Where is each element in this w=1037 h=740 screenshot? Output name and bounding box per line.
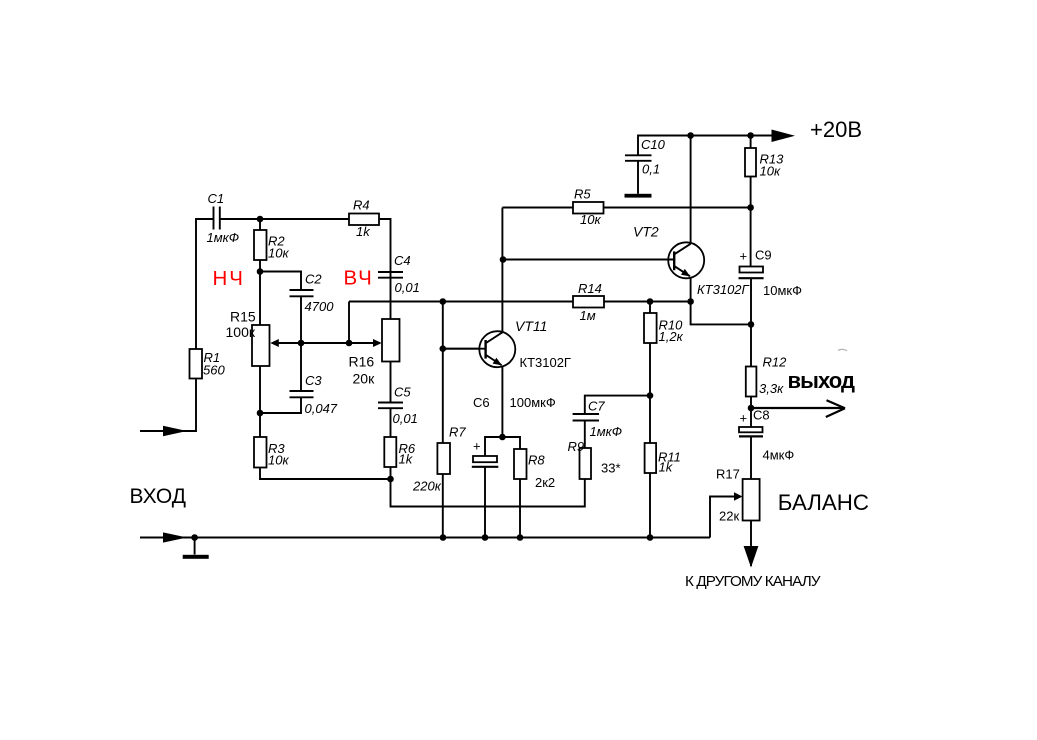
svg-text:20к: 20к: [353, 371, 376, 387]
svg-text:1мкФ: 1мкФ: [590, 424, 623, 439]
svg-text:1м: 1м: [580, 308, 596, 323]
svg-text:1k: 1k: [356, 224, 371, 239]
svg-text:НЧ: НЧ: [213, 267, 245, 290]
svg-text:ВХОД: ВХОД: [130, 485, 187, 508]
svg-text:C6: C6: [473, 395, 490, 410]
svg-text:КТ3102Г: КТ3102Г: [697, 282, 750, 297]
svg-text:R5: R5: [574, 187, 591, 202]
svg-text:33*: 33*: [601, 461, 621, 476]
svg-text:C5: C5: [394, 385, 411, 400]
svg-text:выход: выход: [788, 368, 856, 393]
svg-text:100мкФ: 100мкФ: [510, 395, 556, 410]
svg-text:+20В: +20В: [810, 117, 862, 142]
svg-text:+: +: [740, 249, 748, 264]
svg-text:+: +: [473, 439, 481, 454]
svg-text:R12: R12: [763, 355, 788, 370]
svg-text:4700: 4700: [305, 299, 335, 314]
svg-text:C2: C2: [305, 271, 322, 286]
svg-text:R8: R8: [528, 453, 545, 468]
svg-text:+: +: [740, 411, 748, 426]
svg-text:10к: 10к: [760, 164, 781, 179]
svg-text:0,047: 0,047: [305, 401, 338, 416]
svg-text:220к: 220к: [412, 479, 442, 494]
svg-text:C7: C7: [588, 399, 605, 414]
svg-text:C9: C9: [755, 248, 772, 263]
svg-text:560: 560: [203, 363, 225, 378]
svg-text:C10: C10: [641, 137, 666, 152]
svg-text:БАЛАНС: БАЛАНС: [778, 490, 869, 515]
svg-text:R14: R14: [578, 281, 602, 296]
svg-text:VT2: VT2: [633, 224, 659, 240]
svg-text:100к: 100к: [226, 324, 256, 340]
svg-text:К ДРУГОМУ КАНАЛУ: К ДРУГОМУ КАНАЛУ: [685, 573, 821, 590]
svg-text:10мкФ: 10мкФ: [763, 283, 802, 298]
svg-text:3,3к: 3,3к: [759, 381, 784, 396]
svg-text:R16: R16: [349, 354, 375, 370]
svg-text:1k: 1k: [659, 460, 674, 475]
svg-text:10к: 10к: [268, 246, 289, 261]
svg-text:2к2: 2к2: [535, 475, 555, 490]
svg-text:C4: C4: [394, 253, 411, 268]
svg-text:0,01: 0,01: [395, 280, 420, 295]
svg-text:C8: C8: [753, 408, 770, 423]
svg-text:C3: C3: [305, 373, 322, 388]
svg-text:ВЧ: ВЧ: [344, 267, 374, 290]
svg-text:0,01: 0,01: [393, 411, 418, 426]
svg-text:R4: R4: [353, 198, 370, 213]
svg-text:R7: R7: [449, 425, 466, 440]
svg-text:22к: 22к: [719, 509, 739, 524]
svg-text:0,1: 0,1: [642, 162, 660, 177]
svg-text:10к: 10к: [268, 453, 289, 468]
svg-text:R17: R17: [716, 467, 740, 482]
svg-text:C1: C1: [208, 191, 225, 206]
svg-text:1,2к: 1,2к: [659, 329, 684, 344]
svg-text:10к: 10к: [580, 212, 601, 227]
svg-text:R9: R9: [568, 439, 585, 454]
svg-text:КТ3102Г: КТ3102Г: [520, 355, 571, 370]
svg-text:R15: R15: [230, 309, 256, 325]
svg-text:VT11: VT11: [515, 318, 547, 334]
svg-text:1мкФ: 1мкФ: [207, 230, 240, 245]
svg-text:4мкФ: 4мкФ: [763, 448, 795, 463]
svg-text:1k: 1k: [399, 452, 414, 467]
